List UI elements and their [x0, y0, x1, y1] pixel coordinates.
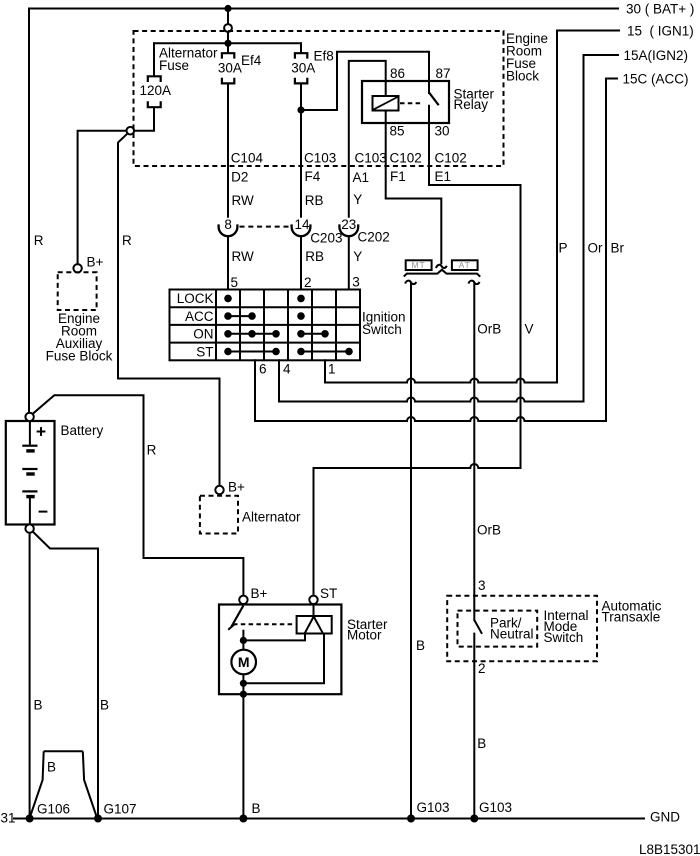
alternator B+ terminal	[215, 486, 223, 494]
svg-text:ST: ST	[320, 586, 337, 601]
starter switch lower contact	[242, 630, 244, 641]
svg-text:31: 31	[1, 811, 16, 826]
svg-text:L8B15301: L8B15301	[639, 842, 700, 856]
wire battery plus to starter B+	[33, 395, 244, 596]
svg-text:C102: C102	[390, 151, 422, 166]
svg-text:Fuse Block: Fuse Block	[46, 349, 113, 364]
starter motor B+ terminal	[239, 596, 247, 604]
svg-text:RB: RB	[305, 193, 324, 208]
wire R to alternator	[118, 134, 220, 486]
svg-text:2: 2	[478, 661, 486, 676]
wire 30 BAT+ top rail	[29, 8, 618, 10]
svg-text:B: B	[47, 760, 56, 775]
starter motor box	[219, 605, 341, 695]
node starter box bottom junction	[240, 691, 247, 698]
internal mode switch dashed box	[458, 611, 538, 647]
svg-text:B+: B+	[251, 586, 268, 601]
starter actuator dashed link	[233, 623, 295, 625]
wire solenoid right terminal to motor bottom	[243, 634, 324, 684]
svg-text:C103: C103	[304, 151, 336, 166]
node G103 left	[407, 815, 415, 823]
svg-text:RW: RW	[232, 193, 255, 208]
svg-text:B: B	[416, 638, 425, 653]
svg-text:C103: C103	[355, 151, 387, 166]
svg-text:Y: Y	[353, 249, 362, 264]
svg-text:15C (ACC): 15C (ACC)	[623, 72, 689, 87]
node motor bottom junction	[240, 680, 247, 687]
svg-text:Or: Or	[588, 241, 604, 256]
svg-text:B: B	[252, 801, 261, 816]
svg-text:R: R	[122, 233, 132, 248]
svg-text:23: 23	[341, 217, 356, 232]
svg-text:R: R	[34, 233, 44, 248]
park/neutral switch blade	[474, 620, 482, 634]
svg-text:2: 2	[304, 275, 312, 290]
ignition switch table	[170, 290, 361, 361]
battery plus terminal	[25, 413, 33, 421]
svg-text:30A: 30A	[218, 61, 242, 76]
node top feed junction dot	[224, 5, 231, 12]
wire 120A fuse bottom lead	[134, 108, 154, 131]
svg-text:85: 85	[390, 124, 405, 139]
option hook AT	[469, 281, 480, 285]
AT option box	[452, 260, 478, 270]
wire contact to motor	[242, 640, 244, 650]
svg-text:P: P	[559, 241, 568, 256]
motor M circle	[231, 650, 256, 675]
svg-text:C104: C104	[231, 151, 264, 166]
engine room auxiliary fuse block dashed box	[58, 272, 97, 310]
wire Y column lower	[348, 236, 350, 289]
wire 15 IGN1 rail P drop	[557, 31, 619, 383]
svg-text:Fuse: Fuse	[159, 58, 189, 73]
svg-text:Br: Br	[611, 241, 625, 256]
svg-text:B+: B+	[228, 480, 245, 495]
wire RW column upper	[227, 84, 229, 217]
svg-text:Y: Y	[353, 192, 362, 207]
svg-text:Relay: Relay	[454, 97, 489, 112]
svg-text:15 ( IGN1): 15 ( IGN1)	[627, 24, 694, 39]
svg-text:15A(IGN2): 15A(IGN2)	[624, 48, 689, 63]
wire battery minus to G107	[33, 532, 98, 819]
svg-text:86: 86	[390, 66, 405, 81]
svg-text:Neutral: Neutral	[490, 627, 534, 642]
svg-text:B+: B+	[87, 255, 104, 270]
wire left battery feed vertical	[28, 9, 30, 413]
wire junction to aux fuse block	[78, 131, 127, 265]
svg-text:Alternator: Alternator	[242, 510, 301, 525]
wire bus4 V to starter ST	[314, 464, 521, 596]
MT AT option splice tilde	[436, 265, 447, 268]
svg-text:Motor: Motor	[347, 628, 382, 643]
wire RB column lower	[300, 236, 302, 289]
wire Ef8 lead top	[300, 43, 302, 52]
wire relay 30 / E1 column to V	[429, 106, 521, 468]
svg-text:B: B	[100, 698, 109, 713]
battery ground strap flask	[30, 751, 97, 817]
svg-text:6: 6	[259, 362, 267, 377]
svg-text:Transaxle: Transaxle	[602, 610, 661, 625]
svg-text:OrB: OrB	[477, 322, 501, 337]
wire relay 85 / F1 column	[386, 111, 442, 264]
svg-text:1: 1	[328, 362, 336, 377]
engine room auxiliary fuse block B+ terminal	[73, 264, 81, 272]
wire starter motor ground	[242, 694, 244, 818]
connector C203 dashed link	[240, 226, 290, 228]
wire bus3 Br	[255, 417, 606, 421]
svg-text:ST: ST	[196, 344, 213, 359]
svg-text:G103: G103	[479, 800, 512, 815]
relay coil	[373, 96, 399, 111]
svg-text:F4: F4	[305, 169, 321, 184]
node 120A output terminal circle	[127, 127, 135, 135]
svg-text:R: R	[147, 443, 157, 458]
svg-text:V: V	[525, 322, 534, 337]
wire bus1 P	[325, 379, 557, 383]
wire park/neutral lower to ground	[473, 634, 475, 819]
node fuse block inlet terminal	[224, 24, 232, 32]
fuse Ef4 30A	[222, 53, 234, 83]
svg-text:E1: E1	[435, 169, 452, 184]
wire Ef8 junction to relay 87	[301, 52, 429, 110]
battery minus terminal	[25, 524, 33, 532]
svg-text:Ef8: Ef8	[314, 49, 334, 64]
wire Ef8 bottom to junction	[300, 84, 302, 110]
svg-text:3: 3	[478, 578, 486, 593]
ignition switch contact links	[228, 316, 349, 351]
battery BAT box	[6, 421, 55, 525]
node fuse feed junction dot	[224, 40, 231, 47]
svg-text:3: 3	[352, 275, 360, 290]
fuse Ef8 30A	[295, 53, 307, 83]
svg-text:G103: G103	[417, 800, 450, 815]
svg-text:B: B	[477, 736, 486, 751]
wire bus2 Or	[279, 398, 584, 402]
svg-text:4: 4	[283, 362, 291, 377]
battery internals	[22, 421, 47, 524]
svg-text:30: 30	[435, 124, 450, 139]
wire RW column lower	[227, 236, 229, 289]
option brace	[404, 270, 480, 277]
svg-text:120A: 120A	[140, 83, 172, 98]
ignition switch contact dots	[224, 295, 353, 356]
svg-text:Switch: Switch	[544, 630, 584, 645]
wire 15C ACC rail Br drop	[606, 79, 617, 422]
alternator GEN dashed box	[200, 496, 238, 534]
svg-text:ACC: ACC	[185, 309, 214, 324]
svg-text:AT: AT	[459, 260, 471, 270]
node G103 right	[470, 815, 478, 823]
wire AT option OrB wire	[473, 283, 475, 620]
svg-text:G107: G107	[104, 802, 137, 817]
svg-text:87: 87	[436, 66, 451, 81]
svg-text:M: M	[238, 654, 250, 670]
svg-text:C102: C102	[435, 151, 467, 166]
wire MT option B wire	[410, 283, 412, 819]
MT option box	[406, 260, 432, 270]
starter solenoid box	[297, 616, 332, 634]
svg-text:Switch: Switch	[362, 322, 402, 337]
svg-text:MT: MT	[411, 260, 425, 270]
node G106	[26, 815, 34, 823]
wire solenoid left terminal to contact	[243, 634, 305, 641]
relay actuator dashed link	[400, 102, 423, 104]
wire 120A fuse top lead	[153, 43, 155, 75]
wire motor bottom junction	[242, 674, 244, 694]
wire 15A IGN2 rail Or drop	[584, 55, 619, 402]
svg-text:5: 5	[231, 275, 239, 290]
wire battery minus to G106	[29, 533, 31, 819]
starter switch blade	[232, 606, 244, 627]
wire ignition pin 6 to bus3	[254, 360, 256, 421]
option hook MT	[405, 281, 416, 285]
svg-text:LOCK: LOCK	[177, 291, 214, 306]
svg-text:30 ( BAT+ ): 30 ( BAT+ )	[626, 2, 694, 17]
fuse 120A	[148, 76, 161, 107]
svg-text:Battery: Battery	[61, 423, 104, 438]
wire fuse feed horizontal	[154, 42, 301, 44]
wire top feed to fuse block	[227, 9, 229, 25]
svg-text:OrB: OrB	[477, 523, 501, 538]
wire ignition pin 1 to bus1	[324, 360, 326, 382]
automatic transaxle dashed box	[447, 596, 597, 662]
svg-text:RW: RW	[232, 249, 255, 264]
wire relay 86 to A1 column	[349, 61, 386, 217]
relay switch blade	[429, 93, 439, 106]
svg-text:RB: RB	[305, 249, 324, 264]
node starter contact junction	[240, 637, 247, 644]
svg-text:ON: ON	[193, 327, 213, 342]
svg-text:14: 14	[295, 217, 311, 232]
node G107	[94, 815, 102, 823]
wire ST into solenoid	[313, 604, 315, 617]
relay K starter relay box	[362, 81, 449, 123]
svg-text:C202: C202	[358, 230, 390, 245]
svg-text:C203: C203	[310, 231, 342, 246]
svg-text:B: B	[34, 698, 43, 713]
starter motor ST terminal	[309, 596, 317, 604]
svg-text:F1: F1	[390, 169, 406, 184]
wire ignition pin 4 to bus2	[278, 360, 280, 401]
node Ef8 output junction dot	[297, 106, 304, 113]
svg-text:A1: A1	[353, 170, 370, 185]
svg-text:G106: G106	[37, 802, 70, 817]
Engine Room Fuse Block dashed box	[134, 31, 504, 166]
wire RB column upper gap	[300, 110, 302, 217]
svg-text:Block: Block	[506, 69, 539, 84]
svg-text:8: 8	[224, 217, 232, 232]
node starter ground dot	[239, 815, 247, 823]
svg-text:D2: D2	[231, 170, 248, 185]
starter solenoid triangle	[305, 617, 323, 634]
wire ground bus	[14, 818, 644, 820]
svg-text:GND: GND	[650, 810, 680, 825]
svg-text:30A: 30A	[291, 61, 315, 76]
svg-text:Ef4: Ef4	[241, 53, 262, 68]
